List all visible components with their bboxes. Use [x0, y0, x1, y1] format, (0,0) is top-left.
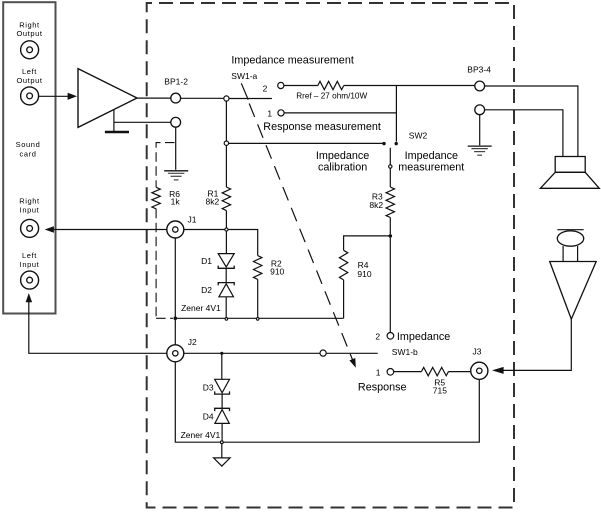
switch SW2 blade down to R3: [389, 148, 392, 187]
resistor R2: [254, 256, 262, 280]
svg-text:1: 1: [267, 108, 272, 118]
switch SW1-a blade: [241, 83, 248, 99]
svg-text:Response measurement: Response measurement: [263, 121, 381, 133]
inline circle on SW1-b wire: [320, 350, 326, 356]
diode D2 zener: [218, 283, 234, 297]
wire D4 to bottom bus: [221, 423, 223, 440]
connector Left Output jack: [21, 87, 39, 105]
ground (below BP3-4): [468, 146, 492, 155]
svg-text:Rref – 27 ohm/10W: Rref – 27 ohm/10W: [296, 91, 367, 100]
wire node B to R1: [225, 145, 227, 187]
wire node A down to node B: [225, 101, 227, 141]
svg-text:Impedance: Impedance: [316, 150, 369, 162]
wire BP1-2 lower to signal ground: [175, 127, 177, 170]
node D3 tap on J2 wire: [220, 352, 223, 355]
svg-text:715: 715: [433, 385, 447, 395]
node A (junction at SW1-a common): [224, 96, 229, 101]
wire Left Input arrow down to J2 rail: [26, 293, 167, 353]
wire J1 down to J2: [174, 238, 176, 345]
connector J2 jack: [167, 345, 184, 362]
svg-text:Zener 4V1: Zener 4V1: [181, 303, 221, 313]
wire J2 down and bottom bus to J3: [175, 362, 479, 442]
svg-text:Left: Left: [22, 67, 37, 76]
svg-text:2: 2: [375, 332, 380, 342]
svg-text:Impedance: Impedance: [405, 150, 458, 162]
svg-text:910: 910: [270, 266, 284, 276]
connector BP1-2 lower binding post: [171, 117, 181, 127]
diode D1 zener: [218, 254, 234, 269]
svg-text:8k2: 8k2: [369, 200, 383, 210]
svg-text:Output: Output: [16, 29, 42, 38]
wire Left Output to amplifier with arrow: [39, 93, 77, 100]
ground (chassis triangle): [214, 458, 231, 466]
node D2 on zener bus: [225, 318, 228, 321]
zener bus wire: [175, 317, 343, 319]
wire BP3-4 lower to ground: [479, 115, 481, 146]
resistor R3: [386, 187, 394, 218]
connector Right Input jack: [21, 219, 39, 237]
wire J1 to R2 top: [184, 230, 258, 256]
svg-text:1k: 1k: [171, 197, 181, 207]
wire junction to R4: [344, 236, 391, 250]
svg-text:J1: J1: [188, 214, 197, 224]
connector BP3-4 lower binding post: [475, 105, 485, 115]
wire SW1-b contact 1 to R5: [394, 371, 422, 373]
speaker LS1: [540, 157, 599, 189]
wire R2 down to zener bus: [257, 279, 259, 318]
svg-text:J3: J3: [473, 347, 482, 357]
svg-text:SW1-a: SW1-a: [231, 71, 257, 81]
connector BP3-4 upper binding post: [475, 81, 485, 91]
wire node A to SW1-a: [229, 98, 272, 100]
svg-text:SW1-b: SW1-b: [392, 347, 418, 357]
wire R4 to zener bus: [343, 280, 345, 318]
svg-text:calibration: calibration: [318, 162, 367, 174]
resistor R5: [421, 367, 448, 375]
svg-text:J2: J2: [188, 337, 197, 347]
ground (signal ground below BP1-2): [164, 171, 188, 180]
svg-text:Input: Input: [20, 206, 40, 215]
connector Left Input jack: [21, 271, 39, 289]
inner dashed box around R6: [156, 143, 174, 319]
wire R3 to junction: [389, 218, 391, 235]
switch SW2 upper wire from Rref rail: [395, 86, 397, 142]
svg-text:1: 1: [376, 368, 381, 378]
sound card box: [3, 2, 55, 313]
svg-text:Right: Right: [19, 196, 40, 205]
node C (R3/R4 junction): [389, 234, 393, 238]
svg-text:D2: D2: [201, 285, 212, 295]
svg-text:D1: D1: [201, 256, 212, 266]
node R2 on zener bus: [256, 318, 259, 321]
svg-text:D4: D4: [203, 412, 214, 422]
wire BP3-4 lower to speaker: [485, 110, 563, 156]
svg-text:Sound: Sound: [16, 140, 41, 149]
wire SW1-a contact 1 to SW2: [284, 112, 396, 114]
node B (junction feeding R1 and SW2 wire): [224, 141, 228, 145]
microphone MIC1: [550, 230, 597, 319]
resistor Rref: [318, 81, 344, 89]
svg-text:SW2: SW2: [409, 130, 428, 140]
wire BP1-2 lower to amplifier ground: [114, 121, 171, 123]
wire R1 down to D1: [225, 211, 227, 254]
wire node B to SW2 left contact: [229, 142, 383, 144]
wire BP3-4 upper to speaker: [485, 86, 578, 156]
wire node to chassis ground: [221, 444, 223, 458]
wire microphone to J3 with arrow: [492, 319, 571, 374]
node at J1 wire / R1-D1 crossing: [225, 228, 228, 231]
wire Rref to BP3-4: [344, 85, 475, 87]
wire Right Input arrow from J1: [45, 226, 167, 233]
wire node C down to SW1-b contact 2: [389, 238, 391, 333]
connector J3 jack: [471, 362, 488, 379]
svg-text:Zener 4V1: Zener 4V1: [181, 430, 221, 440]
resistor R6: [152, 187, 160, 209]
svg-text:8k2: 8k2: [206, 197, 220, 207]
resistor R4: [339, 250, 347, 280]
svg-text:BP3-4: BP3-4: [467, 64, 491, 74]
wire J2 to SW1-b: [184, 352, 378, 354]
switch linkage dashed line SW1-a to SW1-b with arrow: [249, 104, 356, 368]
wire R5 to J3: [449, 371, 471, 373]
wire D3 to D4: [221, 394, 223, 408]
SW1-b contact 1: [387, 369, 394, 376]
diode D4 zener: [215, 408, 230, 423]
SW1-b contact 2: [387, 333, 394, 340]
svg-text:910: 910: [357, 269, 371, 279]
wire BP1-2 upper to node A: [181, 97, 224, 99]
node D4 on bottom bus: [220, 441, 223, 444]
SW2 left contact dot: [382, 142, 385, 145]
op-amp U1 power amplifier triangle: [78, 69, 137, 128]
svg-text:2: 2: [263, 83, 268, 93]
ground (amplifier): [105, 110, 129, 133]
svg-text:Output: Output: [16, 76, 42, 85]
diode D3 zener: [215, 379, 230, 394]
connector Right Output jack: [21, 41, 39, 59]
svg-text:card: card: [20, 149, 37, 158]
wire J2 node down to D3: [221, 353, 223, 379]
wire D2 to zener bus: [225, 297, 227, 318]
svg-text:Impedance measurement: Impedance measurement: [231, 54, 353, 66]
outer dashed enclosure border: [147, 3, 514, 508]
svg-text:Left: Left: [22, 251, 37, 260]
SW1-a contact 2: [278, 82, 284, 88]
svg-text:D3: D3: [203, 383, 214, 393]
svg-text:BP1-2: BP1-2: [164, 77, 188, 87]
svg-text:measurement: measurement: [398, 162, 464, 174]
connector BP1-2 upper binding post: [171, 93, 181, 103]
node at J1 vertical and zener bus: [174, 317, 178, 321]
svg-text:Input: Input: [20, 260, 40, 269]
svg-text:Impedance: Impedance: [397, 331, 450, 343]
connector J1 jack: [167, 221, 184, 238]
SW2 right contact dot: [395, 142, 398, 145]
wire amplifier output to BP1-2: [137, 97, 171, 99]
wire D1 to D2: [225, 268, 227, 282]
svg-text:Right: Right: [19, 20, 40, 29]
svg-text:Response: Response: [358, 381, 407, 393]
resistor R1: [222, 187, 230, 211]
wire SW1-a contact 2 to Rref: [284, 85, 318, 87]
SW1-a contact 1: [278, 110, 284, 116]
